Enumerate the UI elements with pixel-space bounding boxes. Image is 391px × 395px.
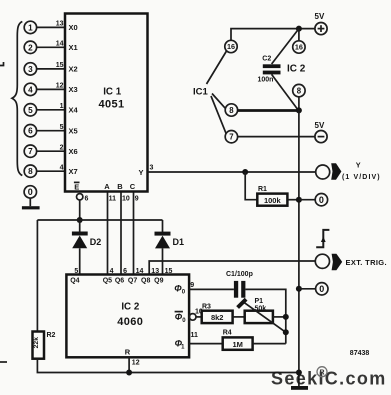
wire node8 to X7 bbox=[37, 170, 65, 172]
5V+ supply circle bbox=[315, 12, 328, 35]
fan line to pin7 bbox=[211, 96, 226, 134]
svg-text:A: A bbox=[104, 182, 110, 191]
svg-text:100n: 100n bbox=[258, 77, 274, 84]
svg-text:X2: X2 bbox=[69, 65, 78, 74]
svg-text:X3: X3 bbox=[69, 85, 78, 94]
svg-text:13: 13 bbox=[151, 268, 159, 275]
fan line to pin16 bbox=[207, 51, 227, 84]
crop artifact top-left bbox=[0, 62, 4, 66]
svg-text:C1/100p: C1/100p bbox=[226, 271, 253, 278]
svg-text:X7: X7 bbox=[69, 167, 78, 176]
svg-text:X6: X6 bbox=[69, 147, 78, 156]
svg-text:(1 V/DIV): (1 V/DIV) bbox=[342, 174, 381, 181]
svg-text:1: 1 bbox=[28, 23, 33, 32]
node 5 bbox=[24, 104, 36, 116]
svg-text:R1: R1 bbox=[258, 186, 267, 193]
svg-text:8: 8 bbox=[229, 106, 234, 115]
IC2 pin16 circle bbox=[293, 41, 305, 53]
svg-text:D1: D1 bbox=[173, 237, 185, 247]
svg-text:3: 3 bbox=[150, 165, 154, 172]
node wiper junction bbox=[283, 329, 289, 335]
svg-text:2: 2 bbox=[60, 145, 64, 152]
thick wire IC1 pin8 to ground junction bbox=[237, 109, 299, 112]
svg-text:13: 13 bbox=[56, 21, 64, 28]
svg-text:15: 15 bbox=[56, 62, 64, 69]
node 4 bbox=[24, 83, 36, 95]
svg-text:IC 2: IC 2 bbox=[121, 302, 140, 313]
fan line to pin8 bbox=[212, 94, 225, 109]
wire pin11 to R4 bbox=[189, 343, 223, 345]
svg-text:15: 15 bbox=[165, 268, 173, 275]
svg-text:11: 11 bbox=[191, 332, 199, 339]
E pin bubble bbox=[77, 194, 83, 200]
wire to 0 terminal a bbox=[299, 199, 315, 201]
svg-text:100k: 100k bbox=[264, 196, 282, 205]
ground main vertical wire bbox=[298, 110, 300, 386]
svg-text:16: 16 bbox=[227, 42, 235, 51]
node 2 bbox=[24, 41, 36, 53]
svg-text:Q4: Q4 bbox=[70, 278, 79, 285]
svg-text:X4: X4 bbox=[69, 106, 79, 115]
svg-text:B: B bbox=[117, 182, 123, 191]
ground symbol bottom bbox=[291, 386, 308, 390]
wire B (pin 10) to IC2 pin 6 bbox=[120, 193, 122, 275]
node 0-terminal-b junction bbox=[296, 286, 302, 292]
svg-text:5: 5 bbox=[60, 124, 64, 131]
wire R4 right bbox=[253, 343, 286, 345]
svg-text:Q5: Q5 bbox=[103, 278, 112, 285]
0 terminal b bbox=[316, 283, 328, 295]
Y output terminal bbox=[316, 165, 330, 179]
wire A (pin 11) to IC2 pin 4 bbox=[107, 193, 109, 275]
svg-text:7: 7 bbox=[229, 133, 233, 142]
svg-text:50k: 50k bbox=[255, 305, 267, 312]
svg-text:4: 4 bbox=[28, 85, 33, 94]
diode D1 bbox=[155, 220, 171, 275]
svg-text:R2: R2 bbox=[47, 332, 56, 339]
wire node6 to X5 bbox=[37, 130, 65, 132]
svg-text:0: 0 bbox=[319, 195, 324, 205]
node E junction bbox=[77, 217, 83, 223]
resistor R3 bbox=[202, 311, 233, 323]
svg-text:22k: 22k bbox=[33, 337, 40, 349]
svg-text:87438: 87438 bbox=[350, 350, 370, 357]
svg-text:Q8: Q8 bbox=[141, 278, 150, 285]
svg-text:0: 0 bbox=[319, 284, 324, 294]
wire node1 to X0 bbox=[37, 26, 65, 28]
svg-text:1M: 1M bbox=[232, 340, 242, 349]
wire C1 right then down right branch bbox=[245, 289, 285, 343]
wire left branch down to R2 bbox=[36, 220, 38, 332]
svg-text:Q9: Q9 bbox=[154, 278, 163, 285]
rising edge glyph bbox=[316, 230, 329, 247]
resistor R4 bbox=[223, 337, 253, 349]
node pin12 junction bbox=[126, 370, 132, 376]
svg-text:5: 5 bbox=[74, 268, 78, 275]
wire bubble to R3 bbox=[196, 316, 202, 318]
svg-text:14: 14 bbox=[136, 268, 144, 275]
svg-text:8: 8 bbox=[28, 167, 33, 176]
wire E junction right to D1 bbox=[80, 219, 163, 221]
svg-text:8: 8 bbox=[297, 87, 302, 96]
wire node5 to X4 bbox=[37, 109, 65, 111]
0 terminal a bbox=[315, 194, 327, 206]
svg-text:8k2: 8k2 bbox=[211, 313, 224, 322]
svg-text:16: 16 bbox=[295, 43, 303, 52]
wire node7 to X6 bbox=[37, 150, 65, 152]
wire E pin down bbox=[79, 200, 81, 220]
svg-text:5V: 5V bbox=[315, 121, 325, 130]
node 6 bbox=[24, 125, 36, 137]
wire P1 right terminal bbox=[273, 316, 286, 318]
svg-text:SeekIC.com: SeekIC.com bbox=[271, 369, 387, 389]
svg-text:C2: C2 bbox=[262, 56, 271, 63]
svg-text:14: 14 bbox=[56, 41, 64, 48]
IC2 pin8 circle bbox=[293, 84, 305, 96]
crop artifact bottom-left bbox=[0, 361, 7, 363]
svg-text:11: 11 bbox=[109, 195, 117, 202]
svg-text:7: 7 bbox=[28, 147, 33, 156]
capacitor C2 bbox=[263, 29, 299, 111]
wire 5V rail bbox=[231, 29, 315, 41]
svg-text:2: 2 bbox=[28, 43, 33, 52]
wire IC2 pin13 elbow up to EXT.TRIG line bbox=[149, 261, 315, 275]
op IC2 4060 box bbox=[66, 275, 189, 358]
svg-text:6: 6 bbox=[28, 127, 33, 136]
resistor R1 bbox=[257, 194, 287, 206]
node 0 (probe ground) bbox=[24, 186, 36, 207]
wire Y output bbox=[148, 171, 316, 173]
node 1 bbox=[24, 21, 36, 33]
node Y/R1 junction bbox=[242, 169, 248, 175]
wire node4 to X3 bbox=[37, 88, 65, 90]
IC1 pin16 circle bbox=[225, 40, 237, 52]
wire R3 to P1 bbox=[233, 316, 245, 318]
svg-text:9: 9 bbox=[135, 195, 139, 202]
ground bar under node 0 bbox=[22, 206, 40, 209]
node 5V rail junction bbox=[296, 26, 302, 32]
brace (left of input connector circles) bbox=[12, 22, 22, 176]
IC1 pin7 circle bbox=[225, 131, 237, 143]
wire R1 to ground line bbox=[287, 199, 299, 201]
wire junction down to IC2 pin16 circle bbox=[298, 29, 300, 41]
svg-text:4: 4 bbox=[110, 268, 114, 275]
svg-text:12: 12 bbox=[56, 83, 64, 90]
svg-text:R: R bbox=[319, 369, 324, 376]
node R1 ground junction bbox=[296, 197, 302, 203]
wire node3 to X2 bbox=[37, 68, 65, 70]
wire IC2 pin12 (R) down bbox=[128, 357, 130, 372]
node 8 bbox=[24, 165, 36, 177]
svg-text:D2: D2 bbox=[90, 237, 102, 247]
svg-text:Y: Y bbox=[356, 161, 361, 170]
wire IC2 pin8 down to ground junction bbox=[298, 97, 300, 111]
svg-text:X1: X1 bbox=[69, 43, 78, 52]
svg-text:X0: X0 bbox=[69, 23, 78, 32]
svg-text:IC 1: IC 1 bbox=[103, 87, 122, 98]
svg-text:X5: X5 bbox=[69, 127, 78, 136]
svg-text:Q7: Q7 bbox=[128, 278, 137, 285]
IC1 pin8 circle bbox=[225, 104, 237, 116]
wire pin7 to 5V- bbox=[238, 136, 315, 138]
svg-text:4: 4 bbox=[60, 165, 64, 172]
wire E junction left bbox=[37, 219, 79, 221]
EXT.TRIG arrow bbox=[332, 254, 343, 271]
svg-text:10: 10 bbox=[122, 195, 130, 202]
svg-text:R3: R3 bbox=[202, 303, 211, 310]
node ground junction bbox=[296, 107, 302, 113]
svg-text:Q6: Q6 bbox=[115, 278, 124, 285]
node P1 right bbox=[283, 314, 289, 320]
svg-text:E: E bbox=[74, 182, 79, 191]
svg-text:Y: Y bbox=[138, 168, 143, 177]
node bottom rail ground junction bbox=[296, 370, 302, 376]
wire C (pin 9) to IC2 pin 14 bbox=[133, 193, 135, 275]
svg-text:6: 6 bbox=[85, 195, 89, 202]
potentiometer P1 bbox=[238, 299, 286, 332]
pin 10 bubble bbox=[189, 314, 196, 321]
op IC1 4051 box bbox=[65, 14, 148, 192]
SeekIC watermark bbox=[271, 367, 387, 389]
node 7 bbox=[24, 145, 36, 157]
svg-text:EXT. TRIG.: EXT. TRIG. bbox=[346, 258, 387, 267]
wire R2 bottom to bottom rail bbox=[37, 359, 299, 373]
EXT.TRIG terminal bbox=[315, 254, 329, 268]
wire junction down to R1 bbox=[245, 172, 257, 200]
svg-text:6: 6 bbox=[123, 268, 127, 275]
capacitor C1 bbox=[234, 281, 246, 298]
wire to 0 terminal b bbox=[299, 288, 316, 290]
diode D2 bbox=[72, 220, 88, 275]
Y output arrow bbox=[331, 163, 341, 180]
svg-text:IC 2: IC 2 bbox=[287, 64, 306, 75]
svg-text:1: 1 bbox=[60, 103, 64, 110]
svg-text:12: 12 bbox=[132, 360, 140, 367]
wire pin9 to C1 bbox=[189, 288, 234, 290]
svg-text:0: 0 bbox=[28, 187, 33, 197]
svg-text:C: C bbox=[130, 182, 136, 191]
svg-text:4051: 4051 bbox=[98, 99, 124, 111]
svg-text:R4: R4 bbox=[223, 330, 232, 337]
wire node2 to X1 bbox=[37, 46, 65, 48]
resistor R2 bbox=[33, 332, 45, 359]
5V- supply circle bbox=[315, 121, 328, 143]
svg-text:IC1: IC1 bbox=[193, 87, 209, 98]
svg-text:P1: P1 bbox=[255, 298, 264, 305]
svg-text:4060: 4060 bbox=[117, 316, 143, 328]
svg-text:5: 5 bbox=[28, 106, 33, 115]
node 3 bbox=[24, 63, 36, 75]
svg-text:R: R bbox=[125, 348, 131, 357]
svg-text:3: 3 bbox=[28, 65, 33, 74]
svg-text:5V: 5V bbox=[315, 12, 325, 21]
svg-text:9: 9 bbox=[190, 282, 194, 289]
